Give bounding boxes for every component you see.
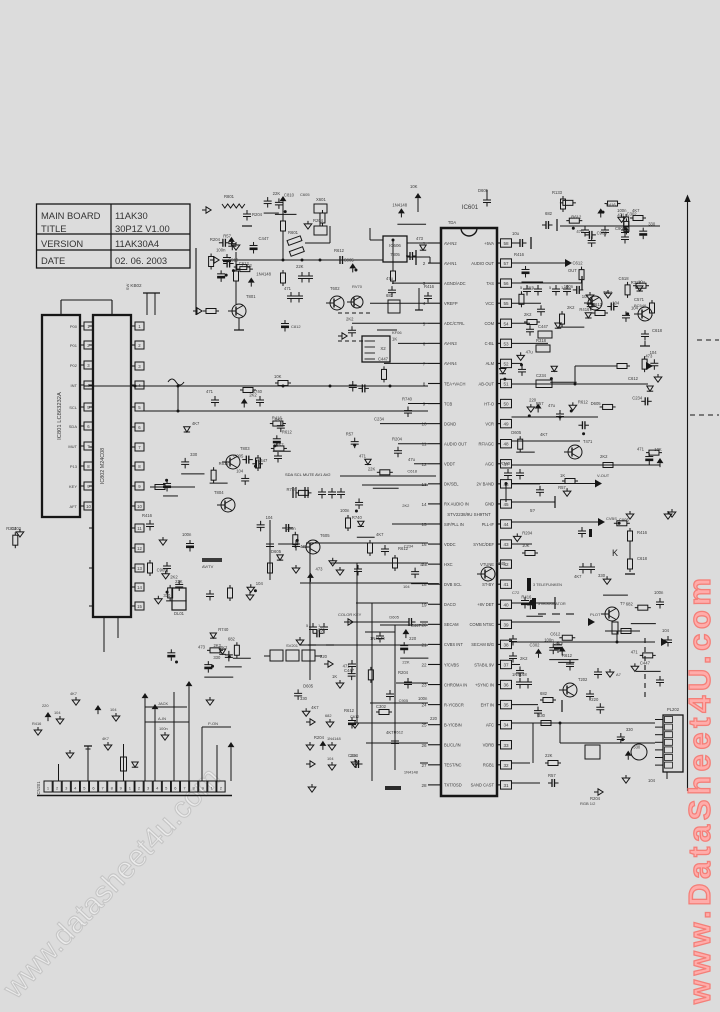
svg-text:R740: R740: [402, 397, 413, 402]
svg-text:C905: C905: [597, 230, 608, 235]
svg-text:2V BAND: 2V BAND: [476, 482, 494, 487]
svg-text:3 TELEFUNKEN: 3 TELEFUNKEN: [533, 582, 562, 587]
svg-text:37: 37: [503, 662, 509, 667]
svg-text:C612: C612: [573, 261, 584, 266]
svg-text:C234: C234: [374, 417, 385, 422]
svg-text:OUT: OUT: [568, 268, 577, 273]
svg-text:14: 14: [421, 502, 427, 507]
svg-text:100n: 100n: [654, 590, 664, 595]
svg-text:D605: D605: [271, 549, 282, 554]
svg-text:100n: 100n: [617, 208, 627, 213]
svg-text:330: 330: [648, 222, 656, 227]
svg-text:10: 10: [137, 504, 142, 509]
svg-text:58: 58: [503, 241, 509, 246]
svg-text:330: 330: [163, 593, 171, 598]
svg-text:TAS: TAS: [486, 281, 494, 286]
svg-text:682: 682: [540, 691, 548, 696]
svg-text:RV70: RV70: [352, 284, 363, 289]
svg-text:330: 330: [598, 573, 606, 578]
svg-text:49: 49: [503, 422, 509, 427]
svg-text:R204: R204: [398, 670, 409, 675]
svg-text:IC801 LC863232A: IC801 LC863232A: [57, 392, 63, 440]
svg-text:53: 53: [503, 341, 509, 346]
svg-text:10u: 10u: [638, 280, 646, 285]
svg-text:R204: R204: [392, 437, 403, 442]
svg-text:VDRB: VDRB: [483, 743, 495, 748]
svg-text:STABIL 9V: STABIL 9V: [474, 662, 494, 667]
svg-text:DATE: DATE: [41, 255, 65, 266]
svg-text:220: 220: [591, 697, 599, 702]
svg-text:4K7: 4K7: [540, 432, 548, 437]
svg-text:TDA: TDA: [448, 220, 457, 225]
svg-text:14: 14: [137, 585, 142, 590]
svg-text:SECAM B/G: SECAM B/G: [471, 642, 494, 647]
svg-text:22K: 22K: [402, 659, 409, 664]
svg-text:4K7: 4K7: [102, 736, 109, 741]
svg-text:R57: R57: [275, 418, 283, 423]
svg-text:AV/TV: AV/TV: [202, 564, 214, 569]
svg-text:56: 56: [503, 281, 509, 286]
svg-text:AFT: AFT: [69, 504, 77, 509]
svg-text:ST-BY: ST-BY: [482, 582, 494, 587]
svg-text:R416: R416: [514, 252, 525, 257]
svg-text:47u: 47u: [408, 457, 416, 462]
svg-text:330: 330: [190, 452, 198, 457]
svg-text:D605: D605: [478, 188, 489, 193]
svg-text:R416: R416: [521, 594, 532, 599]
svg-text:02. 06. 2003: 02. 06. 2003: [115, 255, 167, 266]
svg-text:AFC: AFC: [486, 722, 494, 727]
svg-text:1K: 1K: [332, 674, 337, 679]
svg-text:471: 471: [637, 447, 645, 452]
svg-text:220: 220: [320, 654, 328, 659]
svg-text:11: 11: [137, 526, 142, 531]
svg-text:AGND/ADC: AGND/ADC: [444, 281, 466, 286]
svg-text:220: 220: [430, 716, 438, 721]
svg-text:AV-IN2: AV-IN2: [444, 241, 457, 246]
svg-text:BL/CL/IN: BL/CL/IN: [444, 743, 461, 748]
svg-text:CHROMA IN: CHROMA IN: [444, 682, 467, 687]
svg-text:SDA SCL MUTE AV1 AV2: SDA SCL MUTE AV1 AV2: [285, 472, 331, 477]
svg-text:100n: 100n: [340, 508, 350, 513]
svg-text:R204: R204: [252, 212, 263, 217]
svg-text:2K2: 2K2: [600, 454, 608, 459]
svg-text:R204: R204: [313, 218, 324, 223]
svg-text:471: 471: [206, 389, 214, 394]
svg-text:34: 34: [503, 723, 509, 728]
svg-text:330: 330: [213, 655, 221, 660]
svg-text:R612: R612: [219, 461, 230, 466]
svg-text:1K: 1K: [392, 336, 397, 341]
svg-text:R204: R204: [522, 530, 533, 535]
svg-text:R57: R57: [558, 485, 566, 490]
svg-text:PLOT: PLOT: [590, 612, 601, 617]
svg-text:471: 471: [300, 544, 308, 549]
svg-text:COLOR KEY: COLOR KEY: [338, 612, 362, 617]
svg-text:R612: R612: [282, 429, 293, 434]
svg-text:C905: C905: [344, 257, 355, 262]
svg-text:C447: C447: [640, 660, 651, 665]
svg-text:C302: C302: [627, 211, 638, 216]
svg-text:EHT IN: EHT IN: [481, 702, 494, 707]
svg-text:C618: C618: [407, 468, 417, 473]
svg-text:RX AUDIO IN: RX AUDIO IN: [444, 502, 469, 507]
svg-text:Y/CVBS: Y/CVBS: [444, 662, 459, 667]
svg-text:SAND CAST: SAND CAST: [471, 783, 495, 788]
svg-text:104: 104: [648, 778, 656, 783]
svg-text:682: 682: [626, 602, 634, 607]
svg-text:R204: R204: [6, 526, 17, 531]
svg-text:104: 104: [327, 756, 334, 761]
svg-text:C905: C905: [399, 698, 409, 703]
svg-text:ALM: ALM: [486, 361, 495, 366]
svg-text:R740: R740: [218, 627, 229, 632]
svg-text:45: 45: [503, 502, 509, 507]
svg-text:2K2: 2K2: [249, 392, 257, 397]
svg-text:INT: INT: [71, 383, 78, 388]
svg-text:TXT/OSD: TXT/OSD: [444, 783, 462, 788]
svg-text:33: 33: [503, 743, 509, 748]
svg-text:104: 104: [256, 581, 264, 586]
svg-text:22K: 22K: [273, 191, 281, 196]
svg-text:DACO: DACO: [444, 602, 456, 607]
svg-text:AGC: AGC: [485, 462, 494, 467]
svg-text:10u: 10u: [512, 231, 520, 236]
svg-text:SYNC/DEF: SYNC/DEF: [473, 542, 494, 547]
svg-text:38: 38: [503, 642, 509, 647]
svg-text:104: 104: [631, 305, 639, 310]
svg-text:SW: SW: [125, 284, 130, 291]
svg-text:D605: D605: [511, 430, 522, 435]
svg-text:R612: R612: [562, 653, 573, 658]
svg-text:R601: R601: [288, 230, 299, 235]
svg-text:D605: D605: [303, 683, 314, 688]
svg-text:R57: R57: [548, 773, 556, 778]
svg-text:VERSION: VERSION: [41, 238, 83, 249]
svg-text:1N4148: 1N4148: [404, 769, 419, 774]
svg-text:104: 104: [650, 350, 658, 355]
svg-text:PLL-IF: PLL-IF: [482, 522, 495, 527]
svg-text:DK/SEL: DK/SEL: [444, 482, 459, 487]
svg-text:10K: 10K: [522, 543, 530, 548]
svg-text:10K: 10K: [654, 447, 662, 452]
svg-text:MAIN BOARD: MAIN BOARD: [41, 210, 101, 221]
svg-text:R740: R740: [352, 515, 363, 520]
svg-text:R318: R318: [536, 338, 547, 343]
svg-text:C618: C618: [637, 556, 648, 561]
svg-text:K: K: [612, 548, 618, 558]
svg-text:TEA+VACH: TEA+VACH: [444, 381, 465, 386]
svg-text:22K: 22K: [368, 466, 376, 471]
svg-text:+SYNC IN: +SYNC IN: [475, 682, 494, 687]
svg-text:4K7: 4K7: [70, 691, 77, 696]
svg-text:32: 32: [503, 763, 509, 768]
svg-text:R416: R416: [579, 307, 590, 312]
svg-text:2: 2: [423, 261, 426, 266]
svg-text:C-BL: C-BL: [485, 341, 495, 346]
svg-text:SV201: SV201: [286, 643, 299, 648]
svg-text:T801: T801: [246, 294, 256, 299]
svg-text:X601: X601: [316, 197, 326, 202]
svg-text:104: 104: [54, 710, 61, 715]
svg-text:50: 50: [503, 402, 509, 407]
svg-text:R416: R416: [637, 530, 648, 535]
svg-text:IC601: IC601: [462, 204, 479, 211]
svg-text:C810: C810: [228, 258, 239, 263]
svg-text:C234: C234: [632, 395, 643, 400]
svg-text:2K2: 2K2: [524, 312, 532, 317]
svg-text:36: 36: [503, 683, 509, 688]
svg-text:100n: 100n: [159, 726, 168, 731]
svg-text:104: 104: [403, 584, 410, 589]
svg-text:C905: C905: [157, 568, 168, 573]
svg-text:C618: C618: [652, 328, 663, 333]
svg-text:R740: R740: [286, 487, 297, 492]
svg-text:RGB1: RGB1: [483, 763, 495, 768]
svg-text:10K: 10K: [410, 184, 418, 189]
svg-text:STV2238/9U SH9TNT: STV2238/9U SH9TNT: [447, 512, 491, 517]
svg-text:100n: 100n: [216, 247, 226, 252]
svg-text:330: 330: [633, 745, 641, 750]
svg-text:C447: C447: [257, 458, 268, 463]
svg-text:A7: A7: [616, 672, 622, 677]
svg-text:AV-IN4: AV-IN4: [444, 361, 457, 366]
svg-text:682: 682: [325, 713, 332, 718]
svg-text:100n: 100n: [564, 284, 574, 289]
svg-text:R57: R57: [346, 432, 354, 437]
svg-text:AV-IN1: AV-IN1: [444, 261, 457, 266]
svg-text:C812: C812: [291, 324, 301, 329]
svg-text:C234: C234: [348, 753, 359, 758]
svg-text:104: 104: [662, 628, 670, 633]
svg-text:C905: C905: [619, 517, 630, 522]
svg-text:C447: C447: [538, 324, 549, 329]
svg-text:1K: 1K: [560, 473, 565, 478]
svg-text:330: 330: [626, 727, 634, 732]
svg-text:SECAM: SECAM: [444, 622, 459, 627]
svg-text:SDA: SDA: [69, 424, 78, 429]
svg-text:682: 682: [526, 285, 534, 290]
svg-text:55: 55: [503, 301, 509, 306]
svg-text:CVBS: CVBS: [606, 516, 617, 521]
svg-text:11AK30: 11AK30: [115, 210, 148, 221]
svg-text:39: 39: [503, 622, 509, 627]
svg-text:13: 13: [137, 566, 142, 571]
svg-text:R-Y/CBCR: R-Y/CBCR: [444, 702, 464, 707]
svg-text:48: 48: [503, 442, 509, 447]
svg-text:330: 330: [538, 713, 546, 718]
svg-text:682: 682: [228, 636, 236, 641]
svg-text:V-OUT: V-OUT: [597, 473, 610, 478]
svg-text:R133: R133: [552, 190, 563, 195]
svg-text:COM: COM: [484, 321, 494, 326]
svg-text:R612: R612: [398, 546, 409, 551]
svg-text:AB-OUT: AB-OUT: [479, 381, 495, 386]
svg-text:471: 471: [284, 286, 292, 291]
svg-text:51: 51: [503, 381, 509, 386]
svg-text:KEY: KEY: [69, 484, 77, 489]
svg-text:P00: P00: [70, 324, 78, 329]
svg-text:COMB NTSC: COMB NTSC: [469, 622, 494, 627]
svg-text:KF06: KF06: [392, 330, 402, 335]
svg-text:CVBS INT: CVBS INT: [444, 642, 463, 647]
svg-text:C72: C72: [512, 590, 520, 595]
svg-text:4K7: 4K7: [376, 532, 384, 537]
svg-text:12: 12: [137, 546, 142, 551]
svg-text:1N4148: 1N4148: [370, 636, 385, 641]
svg-text:SCL: SCL: [69, 405, 78, 410]
svg-text:T202: T202: [578, 677, 588, 682]
svg-text:2K2: 2K2: [170, 574, 178, 579]
svg-text:MUT: MUT: [68, 444, 77, 449]
svg-text:C447: C447: [259, 236, 270, 241]
svg-text:PL202: PL202: [667, 707, 680, 712]
svg-text:35: 35: [503, 703, 509, 708]
svg-text:2K2: 2K2: [220, 645, 228, 650]
svg-text:682: 682: [545, 211, 553, 216]
svg-text:TCB: TCB: [444, 401, 452, 406]
svg-text:220: 220: [42, 703, 49, 708]
svg-text:VREFP: VREFP: [444, 301, 458, 306]
svg-text:2K2: 2K2: [346, 316, 354, 321]
svg-text:IC802 M24C08: IC802 M24C08: [100, 448, 106, 484]
svg-text:T804: T804: [214, 490, 224, 495]
svg-text:VTUNE: VTUNE: [480, 562, 494, 567]
svg-text:KB02: KB02: [130, 283, 142, 288]
svg-text:C612: C612: [628, 376, 639, 381]
svg-text:JACK: JACK: [158, 701, 169, 706]
svg-text:R416: R416: [142, 513, 153, 518]
svg-text:AV-IN3: AV-IN3: [444, 341, 457, 346]
svg-text:54: 54: [503, 321, 509, 326]
svg-text:RGB 1/2: RGB 1/2: [580, 801, 596, 806]
svg-text:HXC: HXC: [444, 562, 453, 567]
svg-text:47u: 47u: [548, 403, 556, 408]
svg-text:11AK30A4: 11AK30A4: [115, 238, 159, 249]
svg-text:C618: C618: [619, 276, 630, 281]
svg-text:4K7: 4K7: [574, 574, 582, 579]
svg-text:HT-O: HT-O: [484, 401, 494, 406]
svg-text:R416: R416: [424, 284, 435, 289]
svg-text:C447: C447: [378, 356, 389, 361]
svg-text:VDDT: VDDT: [444, 462, 456, 467]
svg-text:43: 43: [503, 542, 509, 547]
svg-text:C571: C571: [634, 297, 645, 302]
svg-text:5?: 5?: [530, 508, 536, 513]
svg-text:TEST/NC: TEST/NC: [444, 763, 462, 768]
svg-text:D605: D605: [591, 401, 602, 406]
svg-text:473: 473: [316, 567, 324, 572]
svg-text:R740: R740: [500, 461, 511, 466]
svg-text:P02: P02: [70, 363, 78, 368]
svg-text:4K7: 4K7: [192, 421, 200, 426]
svg-text:2K2: 2K2: [567, 305, 575, 310]
svg-text:10: 10: [86, 504, 91, 509]
svg-text:T605: T605: [320, 533, 330, 538]
svg-text:1N4148: 1N4148: [327, 736, 341, 741]
svg-text:R57: R57: [223, 234, 231, 239]
svg-text:104: 104: [582, 294, 590, 299]
svg-text:22: 22: [421, 662, 427, 667]
svg-text:R204: R204: [210, 237, 221, 242]
svg-text:VCR: VCR: [485, 421, 494, 426]
svg-text:47u: 47u: [576, 229, 584, 234]
svg-text:R612: R612: [571, 215, 582, 220]
svg-text:+5VA: +5VA: [484, 241, 494, 246]
svg-text:471: 471: [343, 664, 351, 669]
svg-text:47u: 47u: [526, 349, 534, 354]
svg-text:330: 330: [300, 696, 308, 701]
svg-text:C234: C234: [536, 373, 547, 378]
svg-text:C612: C612: [239, 261, 250, 266]
svg-text:T640: T640: [496, 561, 506, 566]
svg-text:104: 104: [266, 515, 274, 520]
svg-text:T471: T471: [583, 439, 593, 444]
svg-text:220: 220: [409, 636, 417, 641]
svg-text:R57: R57: [276, 442, 284, 447]
svg-text:104: 104: [236, 468, 244, 473]
svg-text:R801: R801: [224, 194, 235, 199]
svg-text:IC606: IC606: [389, 243, 401, 248]
svg-text:C905: C905: [233, 454, 244, 459]
svg-text:4K7: 4K7: [386, 730, 394, 735]
svg-text:C302: C302: [376, 704, 387, 709]
svg-text:D605: D605: [389, 614, 399, 619]
svg-text:10K: 10K: [274, 374, 282, 379]
svg-text:100n: 100n: [182, 532, 192, 537]
svg-text:44: 44: [503, 522, 509, 527]
svg-text:1N4148: 1N4148: [256, 271, 271, 276]
svg-text:R204: R204: [314, 735, 325, 740]
svg-text:C605: C605: [300, 192, 310, 197]
svg-text:TITLE: TITLE: [41, 223, 67, 234]
svg-text:57: 57: [503, 261, 509, 266]
svg-text:X2: X2: [380, 346, 386, 351]
svg-text:R612: R612: [344, 708, 355, 713]
svg-text:GND: GND: [485, 502, 494, 507]
svg-text:B-Y/CBIN: B-Y/CBIN: [444, 722, 462, 727]
svg-text:471: 471: [631, 649, 639, 654]
svg-text:15: 15: [137, 604, 142, 609]
svg-text:R416: R416: [606, 202, 617, 207]
svg-text:SIF/PLL IN: SIF/PLL IN: [444, 522, 464, 527]
svg-text:104: 104: [612, 300, 620, 305]
svg-text:40: 40: [503, 602, 509, 607]
svg-text:104: 104: [110, 707, 117, 712]
svg-text:473: 473: [198, 644, 206, 649]
svg-text:T?: T?: [620, 601, 626, 606]
svg-text:VCC: VCC: [485, 301, 494, 306]
svg-text:C447: C447: [411, 623, 422, 628]
svg-text:31: 31: [503, 783, 509, 788]
svg-text:471: 471: [359, 453, 367, 458]
svg-text:C612: C612: [350, 714, 359, 719]
svg-text:R416: R416: [32, 721, 41, 726]
svg-text:RF/AGC: RF/AGC: [479, 442, 495, 447]
svg-text:13: 13: [421, 482, 427, 487]
svg-text:ADC/CTRL: ADC/CTRL: [444, 321, 465, 326]
svg-text:C302: C302: [529, 643, 540, 648]
svg-text:4K7: 4K7: [311, 705, 319, 710]
svg-text:P13: P13: [70, 464, 78, 469]
svg-text:P01: P01: [70, 343, 78, 348]
svg-text:DVB SCL: DVB SCL: [444, 582, 462, 587]
svg-text:C612: C612: [550, 632, 561, 637]
svg-text:R612: R612: [578, 399, 589, 404]
svg-text:R57: R57: [536, 401, 544, 406]
svg-text:A-IN: A-IN: [158, 716, 166, 721]
svg-text:2K2: 2K2: [402, 503, 410, 508]
